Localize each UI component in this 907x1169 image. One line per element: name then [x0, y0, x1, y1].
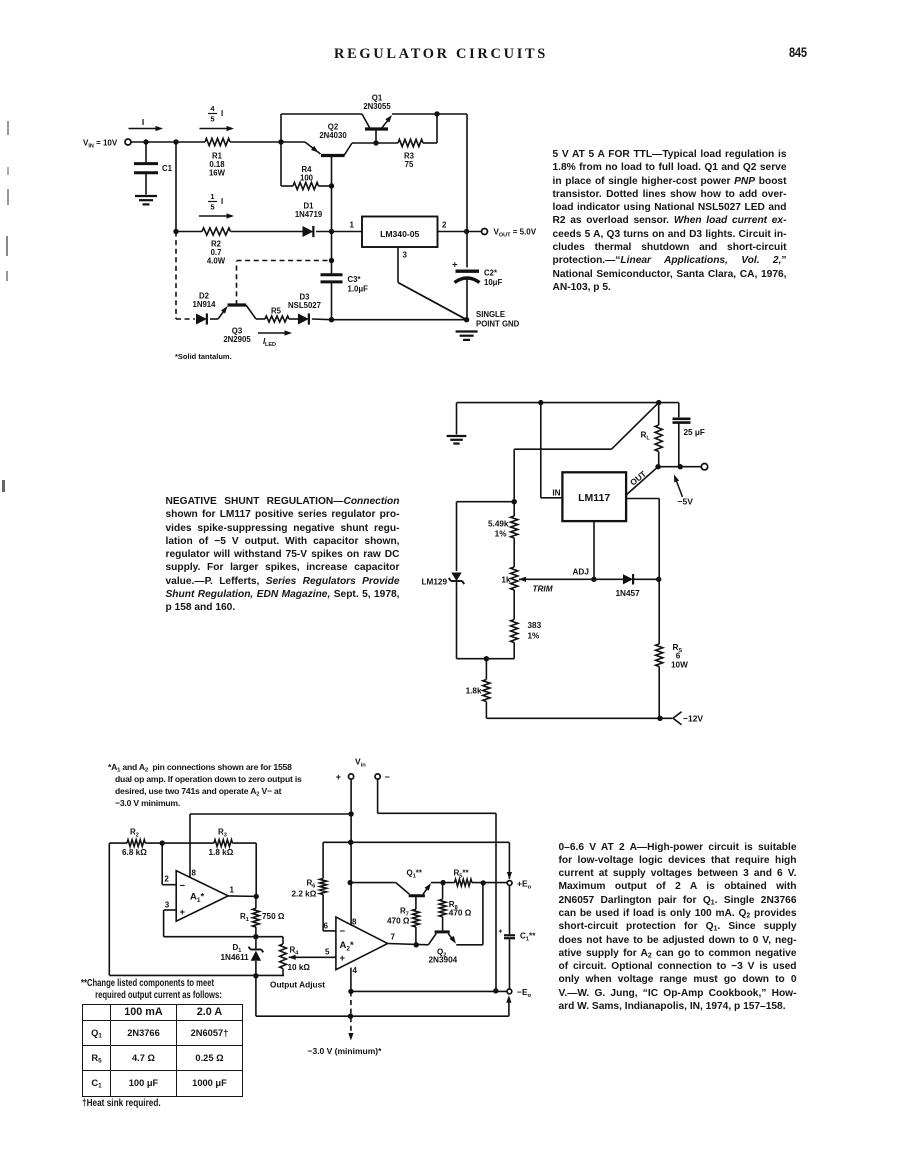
svg-text:Vin: Vin: [355, 757, 366, 769]
svg-text:−: −: [180, 881, 186, 892]
svg-text:+: +: [452, 260, 458, 271]
svg-text:I: I: [221, 109, 223, 118]
svg-text:A2*: A2*: [340, 940, 355, 953]
svg-text:4: 4: [210, 104, 215, 113]
svg-text:4: 4: [353, 966, 358, 975]
svg-text:LED: LED: [265, 342, 276, 348]
svg-text:+: +: [340, 953, 346, 964]
svg-text:1N4611: 1N4611: [221, 953, 250, 962]
svg-text:5.49k: 5.49k: [488, 520, 509, 529]
svg-text:5: 5: [325, 947, 330, 956]
svg-text:VOUT = 5.0V: VOUT = 5.0V: [494, 228, 537, 239]
svg-text:Output Adjust: Output Adjust: [270, 980, 325, 990]
svg-text:1: 1: [350, 221, 355, 230]
svg-text:R2: R2: [130, 828, 139, 839]
svg-text:+: +: [336, 772, 341, 782]
svg-text:2: 2: [164, 875, 169, 884]
svg-text:3: 3: [165, 901, 170, 910]
svg-text:R1: R1: [240, 912, 249, 923]
svg-text:10W: 10W: [671, 661, 688, 670]
svg-text:1N4719: 1N4719: [295, 210, 323, 219]
svg-text:3: 3: [403, 251, 408, 260]
svg-text:1%: 1%: [528, 632, 541, 641]
svg-text:1N914: 1N914: [193, 300, 217, 309]
svg-text:R5: R5: [271, 307, 282, 316]
svg-text:1.8 kΩ: 1.8 kΩ: [209, 848, 234, 857]
svg-text:IN: IN: [552, 489, 560, 498]
svg-text:7: 7: [391, 932, 396, 941]
svg-text:383: 383: [528, 621, 542, 630]
svg-text:2N3904: 2N3904: [429, 956, 458, 965]
svg-text:1.8k: 1.8k: [466, 687, 482, 696]
svg-text:RL: RL: [641, 431, 651, 442]
svg-text:SINGLE: SINGLE: [476, 310, 505, 319]
svg-text:5: 5: [210, 203, 214, 212]
svg-text:+: +: [498, 929, 502, 936]
svg-text:+Eo: +Eo: [517, 879, 532, 891]
svg-text:C2*: C2*: [484, 269, 498, 278]
svg-text:6: 6: [676, 652, 681, 661]
svg-text:−: −: [385, 772, 390, 782]
svg-text:1k: 1k: [501, 575, 511, 584]
svg-text:6: 6: [324, 921, 329, 930]
svg-text:ADJ: ADJ: [573, 568, 589, 577]
svg-text:8: 8: [192, 869, 197, 878]
svg-text:−5V: −5V: [678, 497, 694, 507]
svg-text:−3.0 V (minimum)*: −3.0 V (minimum)*: [308, 1046, 383, 1056]
svg-text:10 kΩ: 10 kΩ: [288, 963, 311, 972]
svg-text:75: 75: [405, 160, 414, 169]
svg-text:16W: 16W: [209, 169, 226, 178]
svg-text:10μF: 10μF: [484, 278, 502, 287]
svg-text:R6: R6: [307, 878, 316, 889]
svg-text:TRIM: TRIM: [533, 585, 553, 594]
svg-text:750 Ω: 750 Ω: [262, 912, 285, 921]
svg-text:2: 2: [442, 221, 447, 230]
svg-text:C1**: C1**: [520, 931, 536, 942]
svg-text:I: I: [142, 117, 144, 127]
svg-text:A1*: A1*: [190, 892, 205, 905]
svg-text:−: −: [340, 926, 346, 937]
svg-text:1.0μF: 1.0μF: [348, 285, 369, 294]
svg-text:C3*: C3*: [348, 275, 362, 284]
svg-text:*Solid tantalum.: *Solid tantalum.: [175, 352, 232, 361]
svg-text:6.8 kΩ: 6.8 kΩ: [122, 848, 147, 857]
svg-text:+: +: [180, 907, 186, 918]
svg-text:1: 1: [230, 886, 235, 895]
svg-text:1: 1: [210, 192, 214, 201]
svg-text:LM117: LM117: [578, 492, 610, 504]
svg-text:100: 100: [300, 174, 314, 183]
svg-text:LM340-05: LM340-05: [380, 229, 419, 239]
svg-text:4.0W: 4.0W: [207, 257, 226, 266]
svg-text:−12V: −12V: [683, 714, 703, 724]
svg-text:−Eo: −Eo: [517, 987, 532, 999]
svg-text:VIN = 10V: VIN = 10V: [83, 139, 118, 150]
svg-text:POINT GND: POINT GND: [476, 320, 520, 329]
svg-text:2N3055: 2N3055: [363, 102, 391, 111]
svg-text:LM129: LM129: [422, 578, 448, 587]
svg-text:R4: R4: [290, 945, 300, 956]
svg-text:8: 8: [352, 917, 357, 926]
svg-text:2.2 kΩ: 2.2 kΩ: [292, 889, 317, 898]
svg-text:1N457: 1N457: [616, 589, 641, 598]
svg-text:NSL5027: NSL5027: [288, 301, 321, 310]
svg-text:470 Ω: 470 Ω: [387, 917, 410, 926]
svg-text:25 μF: 25 μF: [684, 428, 705, 437]
svg-text:1%: 1%: [495, 530, 508, 539]
svg-text:I: I: [221, 197, 223, 206]
svg-text:C1: C1: [162, 164, 173, 173]
svg-text:Q1**: Q1**: [407, 868, 423, 879]
svg-text:5: 5: [210, 115, 214, 124]
svg-text:R3: R3: [218, 828, 227, 839]
svg-text:2N2905: 2N2905: [223, 335, 251, 344]
svg-text:2N4030: 2N4030: [319, 131, 347, 140]
svg-text:470 Ω: 470 Ω: [449, 908, 472, 917]
